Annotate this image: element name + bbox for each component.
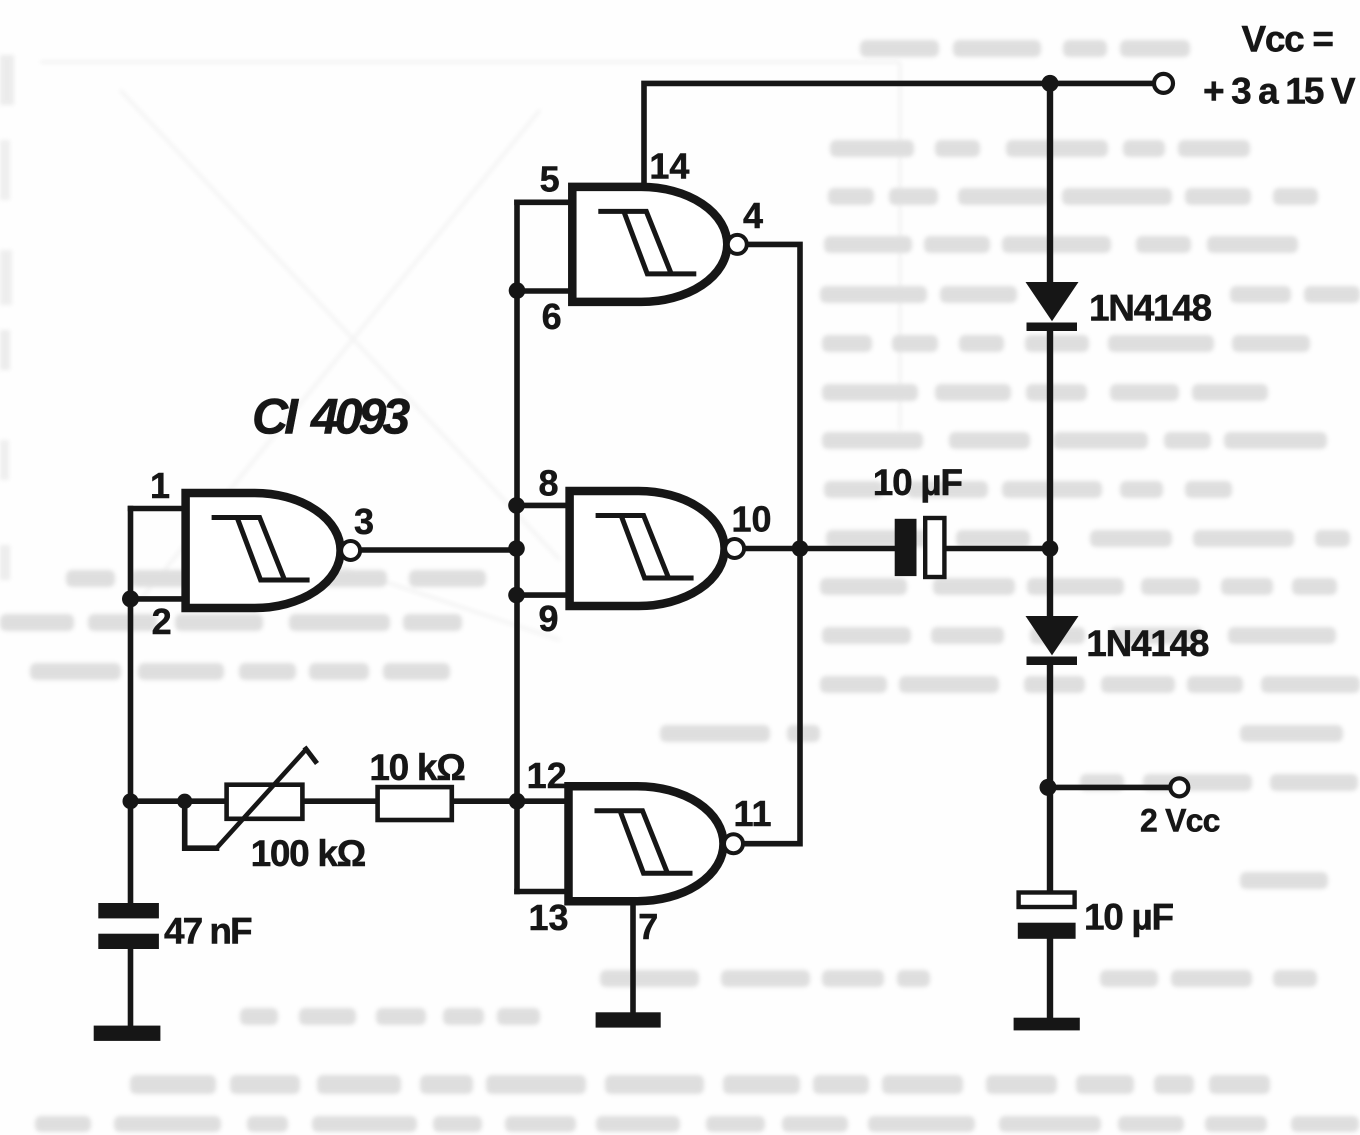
svg-text:1N4148: 1N4148 — [1089, 287, 1212, 328]
svg-text:47 nF: 47 nF — [164, 910, 252, 951]
svg-text:4: 4 — [743, 195, 763, 236]
svg-text:6: 6 — [542, 296, 562, 337]
svg-text:11: 11 — [733, 793, 771, 834]
svg-text:CI 4093: CI 4093 — [252, 389, 410, 445]
svg-text:12: 12 — [527, 755, 567, 796]
svg-text:1N4148: 1N4148 — [1086, 623, 1209, 664]
svg-text:+ 3 a 15 V: + 3 a 15 V — [1203, 70, 1356, 111]
svg-text:8: 8 — [538, 463, 558, 504]
svg-text:100 kΩ: 100 kΩ — [251, 833, 366, 874]
svg-text:3: 3 — [354, 501, 374, 542]
svg-text:2 Vcc: 2 Vcc — [1140, 803, 1220, 839]
svg-text:10: 10 — [731, 499, 771, 540]
svg-text:5: 5 — [540, 159, 560, 200]
svg-text:10 µF: 10 µF — [1084, 897, 1174, 938]
svg-text:13: 13 — [528, 897, 568, 938]
svg-text:2: 2 — [152, 601, 172, 642]
svg-text:9: 9 — [538, 598, 558, 639]
svg-text:Vcc =: Vcc = — [1242, 19, 1334, 60]
svg-text:10 kΩ: 10 kΩ — [369, 747, 465, 788]
svg-text:14: 14 — [649, 146, 689, 187]
svg-text:10 µF: 10 µF — [873, 462, 963, 503]
svg-text:1: 1 — [150, 465, 170, 506]
svg-text:7: 7 — [638, 906, 658, 947]
